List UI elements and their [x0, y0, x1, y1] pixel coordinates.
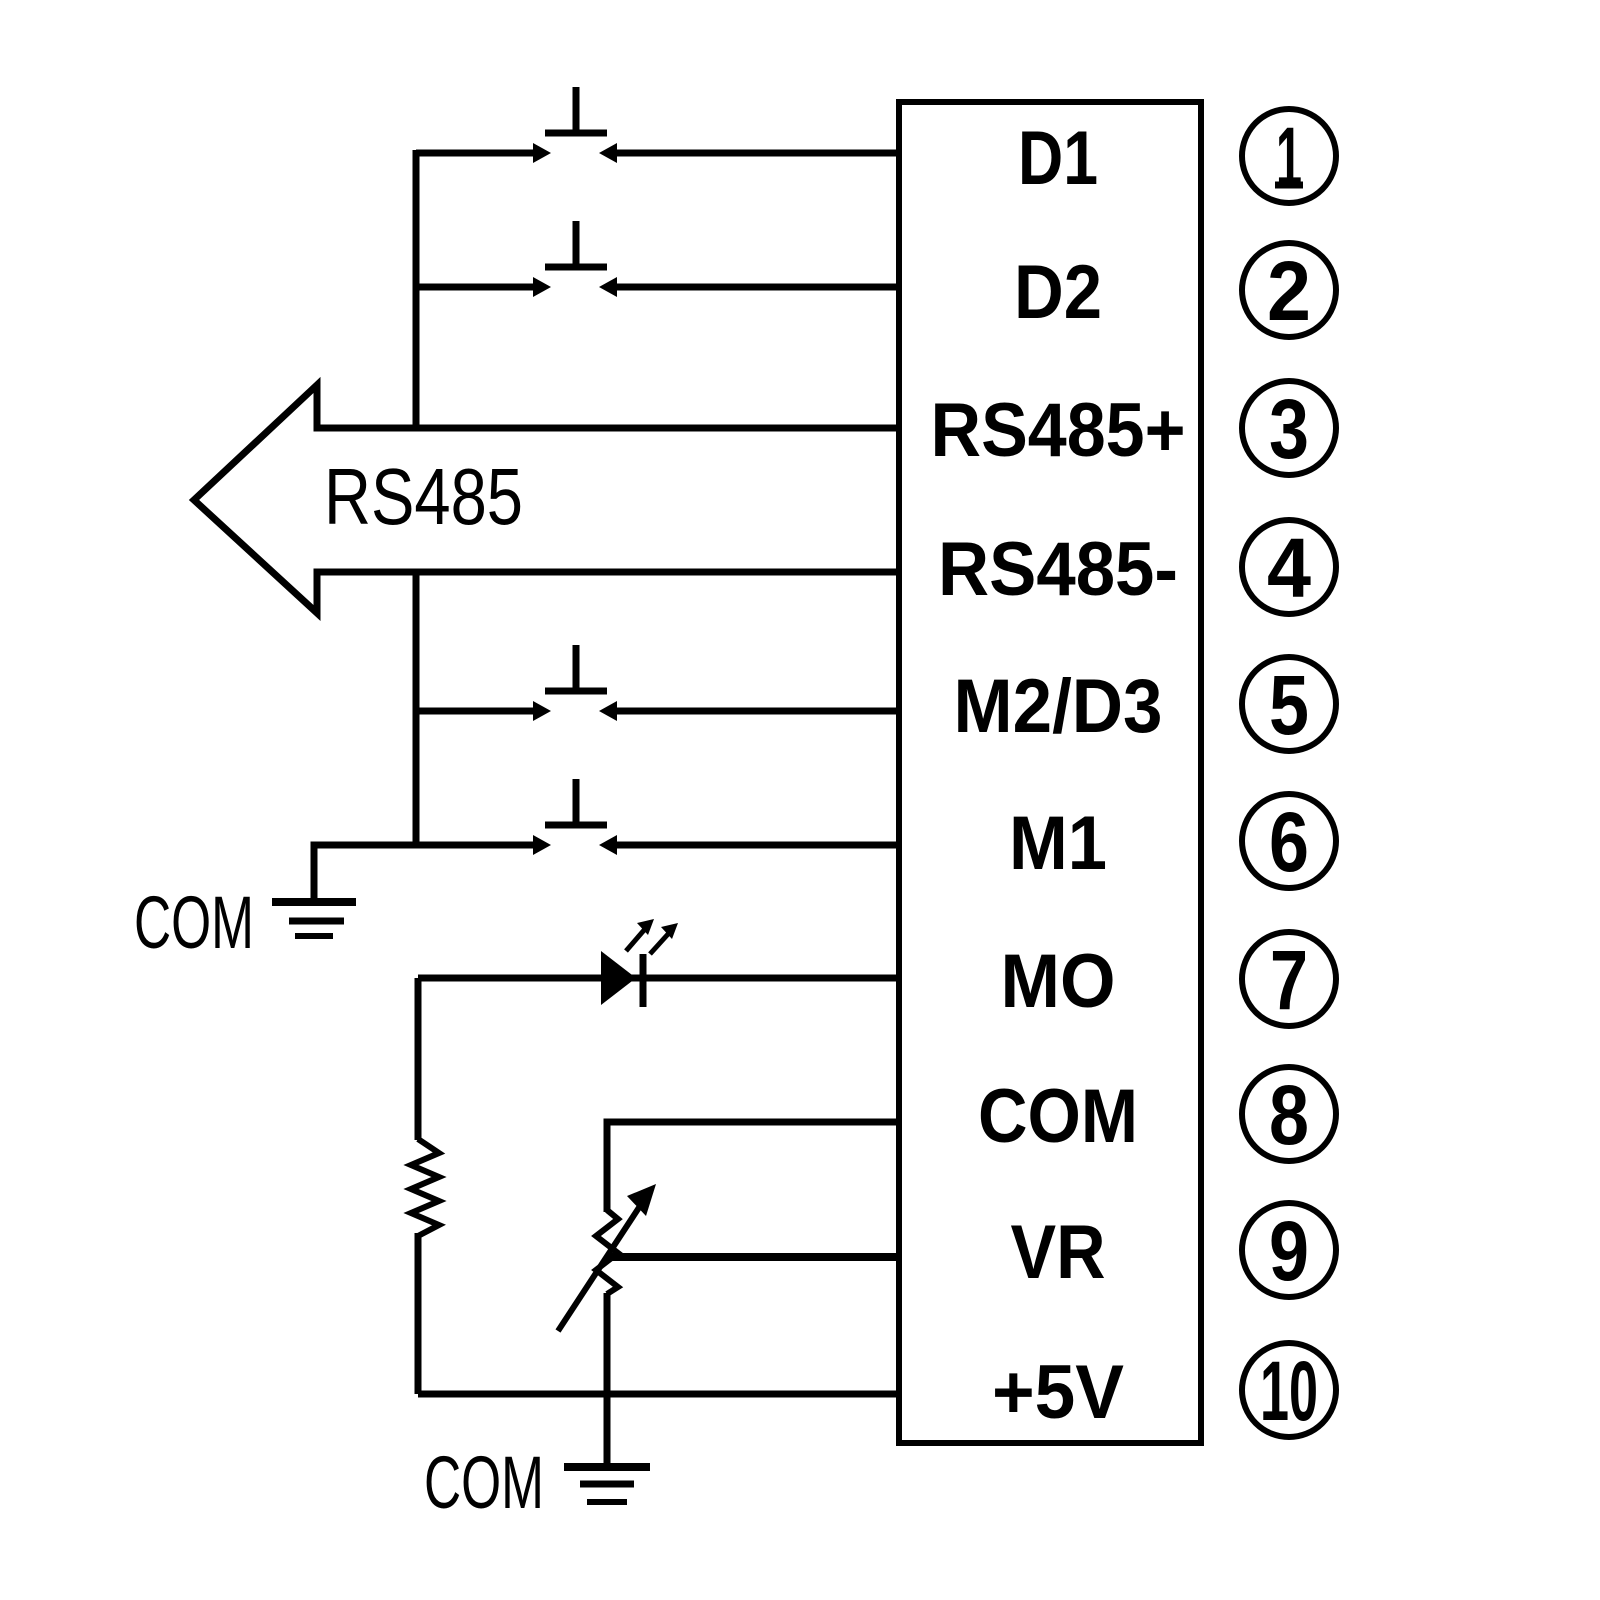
switch S1 (D1 push button): [533, 87, 617, 163]
resistor R1: [411, 1139, 439, 1236]
pin number 4 circle: [1242, 520, 1336, 615]
LED D5: [601, 919, 678, 1007]
svg-text:8: 8: [1269, 1068, 1309, 1162]
wire: MO wire: [418, 975, 899, 982]
svg-text:M2/D3: M2/D3: [954, 664, 1163, 749]
svg-text:+5V: +5V: [992, 1350, 1124, 1435]
terminal block U1: [899, 102, 1201, 1443]
svg-text:10: 10: [1260, 1344, 1318, 1438]
svg-text:COM: COM: [134, 881, 254, 964]
svg-text:5: 5: [1269, 658, 1309, 752]
wire: left vertical bus lower segment: [413, 572, 420, 845]
pin number 3 circle: [1242, 381, 1336, 476]
svg-text:7: 7: [1270, 933, 1308, 1027]
svg-text:COM: COM: [978, 1074, 1138, 1159]
wire: potentiometer lower vertical: [604, 1293, 611, 1463]
svg-text:MO: MO: [1001, 939, 1116, 1024]
svg-text:VR: VR: [1011, 1210, 1106, 1295]
svg-text:COM: COM: [424, 1441, 544, 1524]
pin number 2 circle: [1242, 243, 1336, 338]
svg-text:D2: D2: [1014, 250, 1102, 335]
wire: D2 left segment: [416, 284, 537, 291]
wire: M1 left segment: [314, 842, 537, 849]
svg-text:6: 6: [1269, 795, 1309, 889]
wire: resistor to +5V rail: [415, 1233, 422, 1394]
wire: MO branch vertical: [415, 978, 422, 1140]
ground COM (upper): [272, 902, 356, 936]
svg-text:RS485-: RS485-: [938, 527, 1178, 612]
svg-text:RS485: RS485: [324, 452, 523, 541]
switch S2 (D2 push button): [533, 221, 617, 297]
pin number 6 circle: [1242, 794, 1336, 889]
svg-text:RS485+: RS485+: [931, 388, 1186, 473]
pin number 7 circle: [1242, 932, 1336, 1027]
wire: D2 right segment to pin: [615, 284, 899, 291]
RS485 bus block arrow (wires RS485+ / RS485-): [194, 385, 899, 613]
svg-text:3: 3: [1269, 382, 1309, 476]
svg-text:M1: M1: [1009, 801, 1107, 886]
wire: D1 right segment to pin: [615, 150, 899, 157]
wire: VR wire: [607, 1253, 899, 1261]
svg-text:1: 1: [1276, 110, 1302, 204]
wire: M2/D3 right segment to pin: [615, 708, 899, 715]
switch S4 (M1 push button): [533, 779, 617, 855]
wire: COM pin 8 branch: [607, 1122, 899, 1212]
pin number 1 circle: [1242, 109, 1336, 204]
wire: left vertical bus upper segment: [413, 150, 420, 428]
switch S3 (M2/D3 push button): [533, 645, 617, 721]
pin number 10 circle: [1242, 1343, 1336, 1438]
pin number 9 circle: [1242, 1203, 1336, 1298]
wire: D1 left segment: [416, 150, 537, 157]
svg-text:9: 9: [1269, 1204, 1309, 1298]
potentiometer RV1: [558, 1184, 656, 1331]
wire: COM ground branch: [314, 845, 416, 899]
svg-text:D1: D1: [1018, 116, 1098, 201]
wire: M2/D3 left segment: [416, 708, 537, 715]
wire: +5V rail: [418, 1391, 899, 1398]
pin number 8 circle: [1242, 1067, 1336, 1162]
pin number 5 circle: [1242, 657, 1336, 752]
wire: M1 right segment to pin: [615, 842, 899, 849]
ground COM (lower): [564, 1467, 650, 1502]
svg-text:2: 2: [1267, 244, 1311, 338]
svg-text:4: 4: [1267, 521, 1311, 615]
